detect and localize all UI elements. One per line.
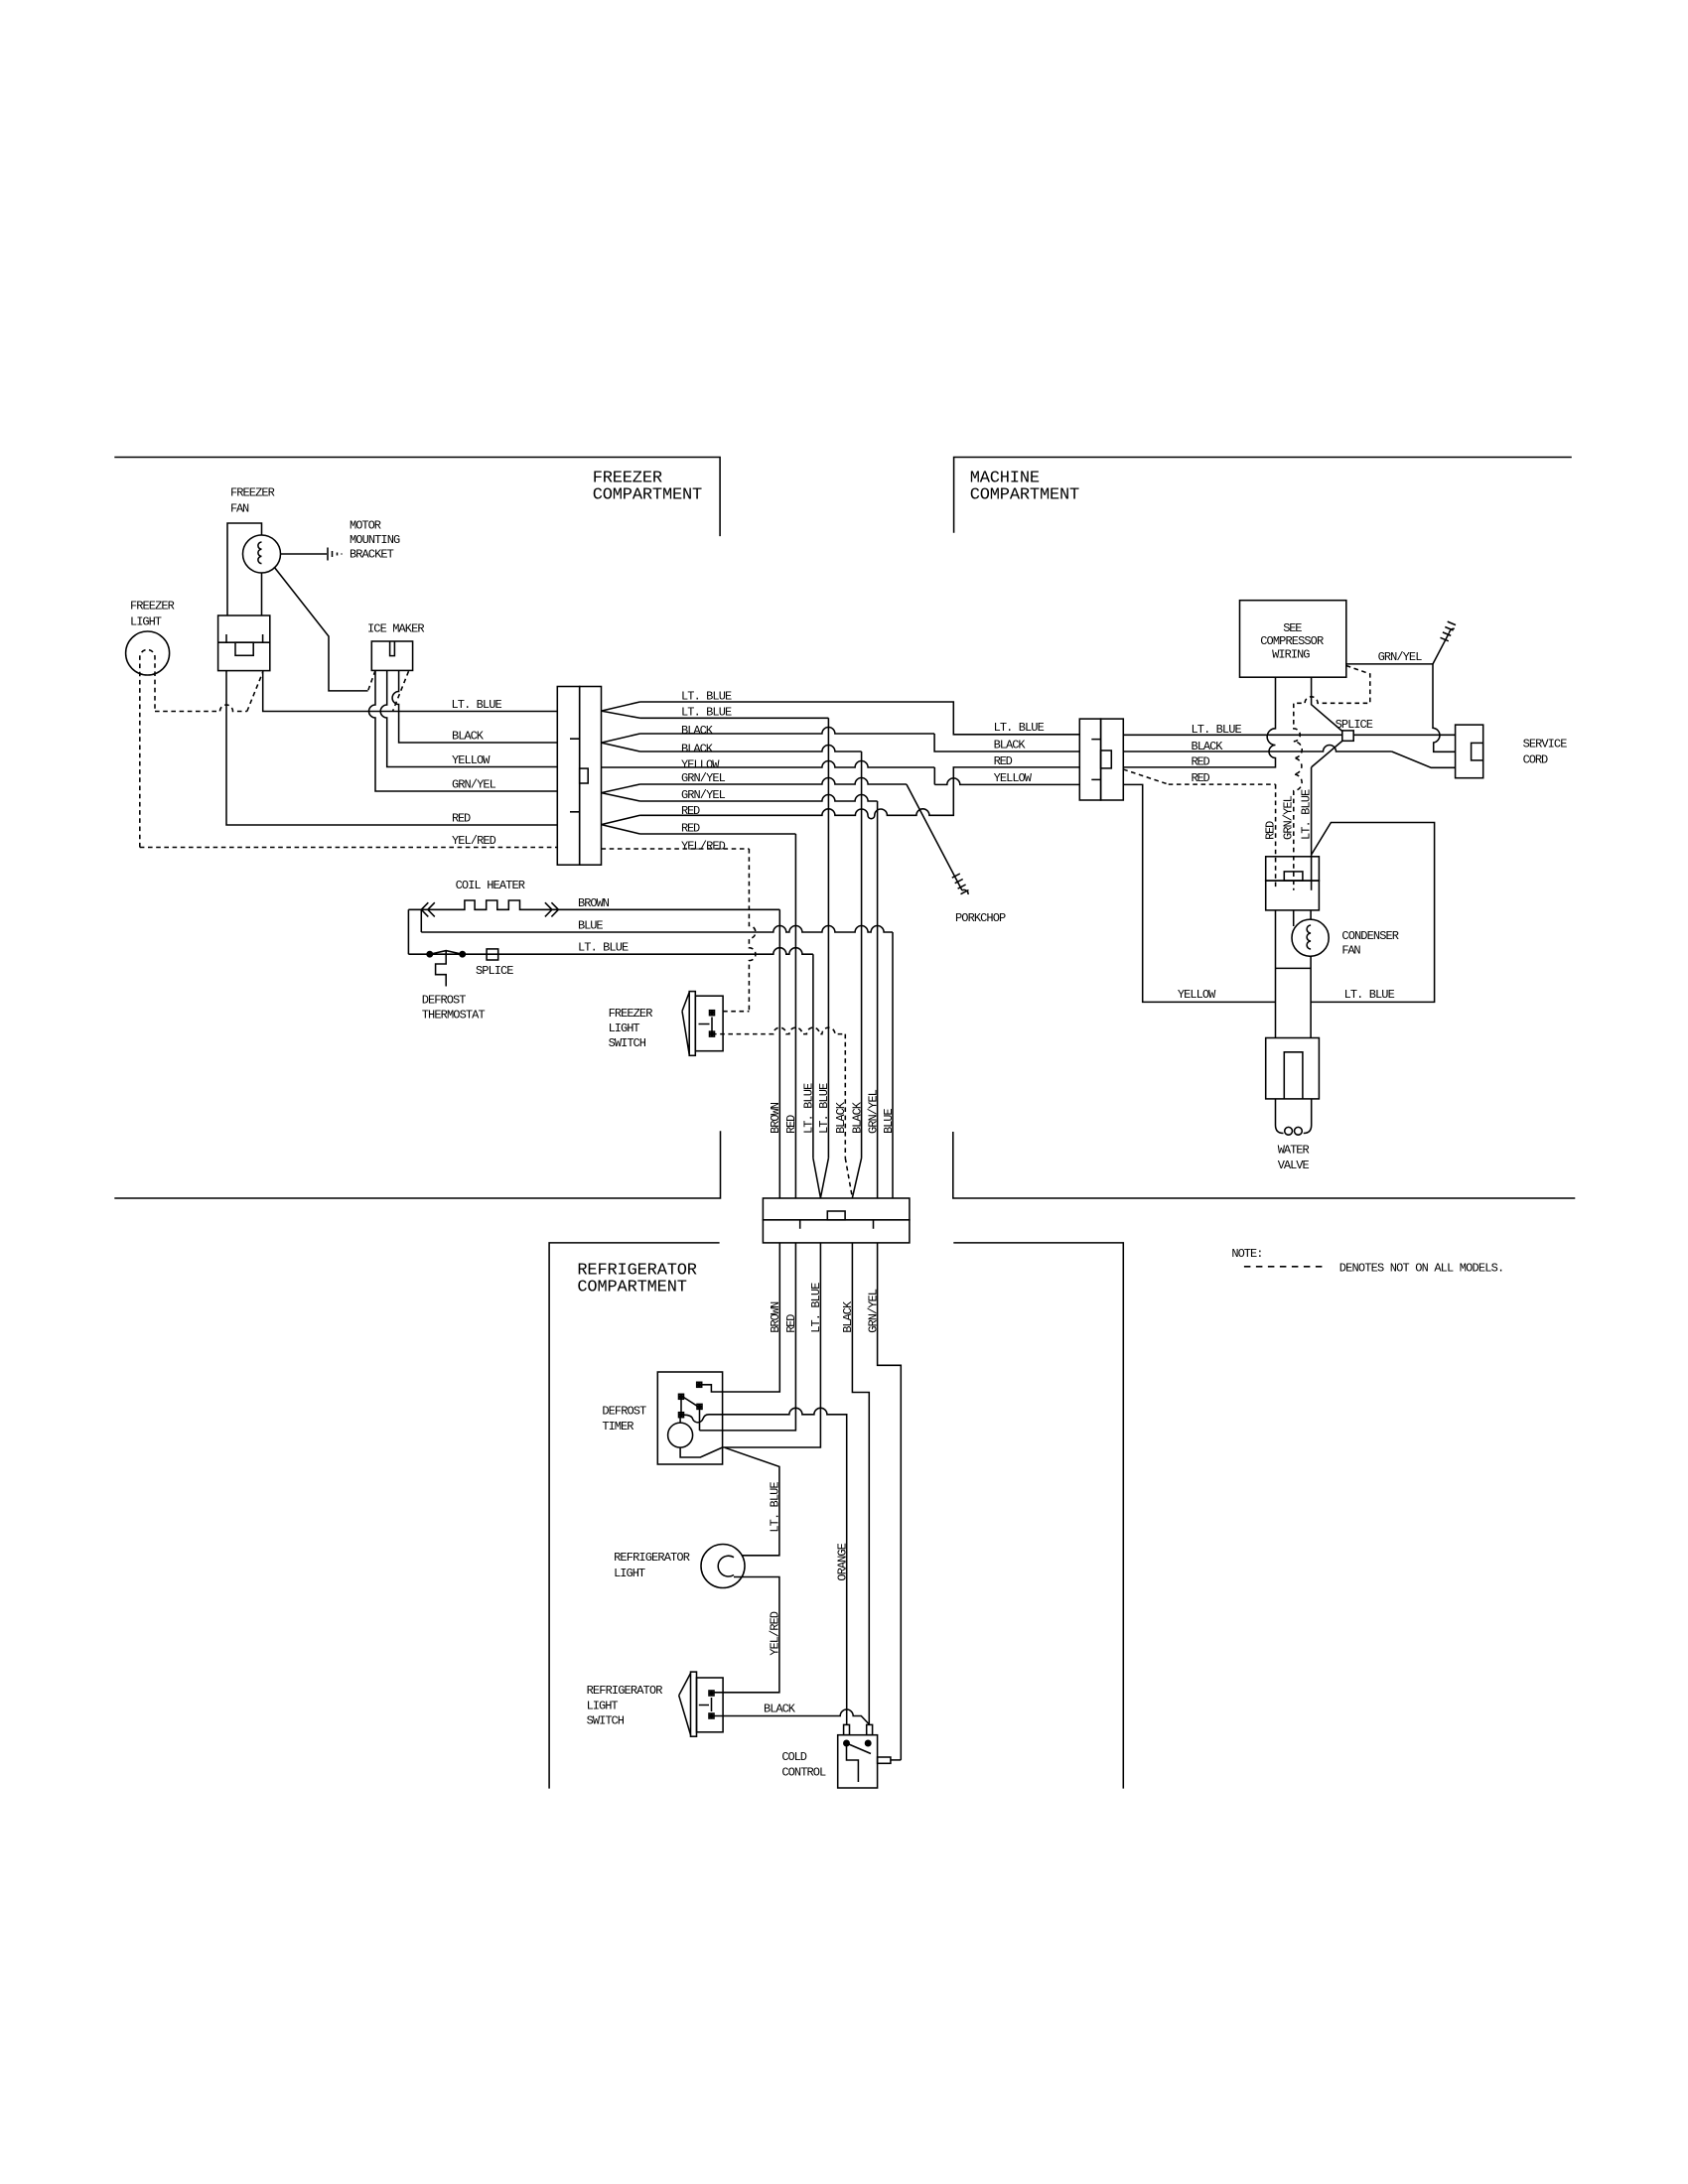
wire LT. BLUE upper <box>640 702 1080 735</box>
svg-text:GRN/YEL: GRN/YEL <box>681 788 726 802</box>
wire LT. BLUE timer to refrigerator light <box>725 1447 779 1556</box>
svg-text:BLACK: BLACK <box>764 1703 796 1716</box>
wire GRN/YEL down with jog <box>878 1243 902 1760</box>
ice maker pin 1 dashed <box>368 670 375 691</box>
wire dashed YEL/RED to connector <box>140 847 558 849</box>
defrost timer motor tail to LT. BLUE out <box>680 1447 723 1457</box>
freezer compartment connector block <box>557 687 579 866</box>
cold control contacts <box>844 1740 849 1745</box>
svg-text:SWITCH: SWITCH <box>609 1036 646 1050</box>
svg-text:YELLOW: YELLOW <box>681 757 720 771</box>
svg-text:YEL/RED: YEL/RED <box>452 834 496 848</box>
svg-text:PORKCHOP: PORKCHOP <box>955 911 1006 925</box>
svg-text:FAN: FAN <box>230 501 249 515</box>
ice maker pin 3 wire to BLACK <box>392 670 557 743</box>
wire BLACK lower drop <box>640 746 862 751</box>
wire YEL/RED light to switch <box>715 1577 779 1693</box>
svg-text:SPLICE: SPLICE <box>476 964 513 978</box>
crimp RED pair <box>602 815 640 834</box>
refrigerator light bulb <box>701 1545 745 1588</box>
svg-text:LT. BLUE: LT. BLUE <box>802 1083 816 1134</box>
svg-text:LIGHT: LIGHT <box>614 1567 645 1580</box>
wire RED vertical drop <box>794 834 796 1198</box>
svg-text:BROWN: BROWN <box>578 896 610 910</box>
wire RED into defrost timer <box>700 1243 796 1431</box>
svg-text:LT. BLUE: LT. BLUE <box>681 706 732 720</box>
ice maker pin 4 dashed <box>393 671 409 711</box>
svg-text:SEE: SEE <box>1283 621 1302 635</box>
svg-text:FREEZER: FREEZER <box>593 469 662 487</box>
wire BLACK run to service cord <box>1123 746 1391 752</box>
wire dashed BLACK from switch <box>712 1027 845 1034</box>
wire BLACK switch to cold control <box>714 1709 870 1724</box>
svg-text:LT. BLUE: LT. BLUE <box>1299 789 1313 840</box>
cold control box <box>838 1735 878 1788</box>
wire LT. BLUE (defrost circuit) <box>408 948 813 954</box>
svg-text:RED: RED <box>681 804 700 818</box>
defrost thermostat <box>427 952 432 957</box>
refrigerator light switch body <box>691 1672 697 1736</box>
wire GRN/YEL stub to condenser fan frame <box>1293 910 1295 926</box>
wire RED lower drop <box>640 833 796 835</box>
wire GRN/YEL upper (to porkchop) <box>640 778 907 784</box>
svg-text:RED: RED <box>452 812 471 826</box>
wire YELLOW run down <box>1123 784 1275 1002</box>
svg-text:MOTOR: MOTOR <box>350 518 381 532</box>
svg-text:LIGHT: LIGHT <box>130 614 162 628</box>
wire GRN/YEL dashed from compressor box <box>1294 666 1370 890</box>
svg-text:ICE MAKER: ICE MAKER <box>367 621 425 635</box>
machine compartment border bottom <box>953 1132 1576 1198</box>
svg-text:DEFROST: DEFROST <box>602 1404 646 1418</box>
water valve connector <box>1266 1038 1320 1099</box>
svg-text:REFRIGERATOR: REFRIGERATOR <box>614 1551 690 1565</box>
svg-text:DENOTES NOT ON ALL MODELS.: DENOTES NOT ON ALL MODELS. <box>1339 1261 1504 1275</box>
compressor mount block <box>1266 857 1320 881</box>
svg-text:COMPARTMENT: COMPARTMENT <box>577 1278 687 1297</box>
condenser fan circle <box>1292 919 1329 956</box>
svg-text:BLACK: BLACK <box>681 742 714 755</box>
freezer compartment border top <box>114 458 720 537</box>
wire BLACK vertical drop <box>861 751 863 1159</box>
svg-text:SERVICE: SERVICE <box>1523 737 1568 751</box>
crimp BLACK V <box>845 1159 852 1198</box>
ice maker connector block <box>371 641 412 670</box>
water valve solenoid loops <box>1285 1127 1293 1135</box>
svg-text:BLACK: BLACK <box>681 724 714 738</box>
svg-text:LIGHT: LIGHT <box>609 1022 640 1035</box>
svg-text:LT. BLUE: LT. BLUE <box>681 689 732 703</box>
coil heater chevron left <box>421 902 435 916</box>
wire YEL/RED dashed drop <box>602 848 750 850</box>
cold control capillary <box>847 1743 859 1782</box>
defrost timer T2 lead <box>699 1409 701 1431</box>
wire ORANGE from timer <box>684 1408 847 1724</box>
svg-text:CONTROL: CONTROL <box>781 1765 826 1779</box>
defrost timer terminal T1 <box>697 1382 702 1387</box>
wire BLUE <box>420 909 422 932</box>
svg-text:SPLICE: SPLICE <box>1336 718 1373 732</box>
svg-text:YELLOW: YELLOW <box>452 753 491 767</box>
condenser fan coil <box>1307 925 1311 949</box>
svg-text:RED: RED <box>681 821 700 835</box>
wire GRN/YEL lower drop <box>640 795 878 801</box>
svg-text:RED: RED <box>994 754 1013 768</box>
splice square (machine) <box>1342 731 1353 741</box>
svg-text:BLACK: BLACK <box>452 730 485 744</box>
svg-text:COMPRESSOR: COMPRESSOR <box>1260 634 1324 648</box>
svg-text:GRN/YEL: GRN/YEL <box>1282 795 1296 840</box>
wire LT. BLUE main run to splice <box>1123 734 1455 736</box>
ice maker pin 1 wire to GRN/YEL <box>369 670 558 791</box>
svg-text:RED: RED <box>1264 821 1278 840</box>
wire fan connector to RED <box>226 671 557 825</box>
defrost timer terminal T4 <box>679 1394 684 1399</box>
freezer light switch terminals <box>710 1011 715 1016</box>
svg-text:BLUE: BLUE <box>882 1108 896 1134</box>
wire fan to ice maker area diagonal <box>274 567 368 691</box>
machine compartment border top <box>954 458 1572 533</box>
wire LT. BLUE splice tap down <box>1312 741 1342 767</box>
svg-text:CORD: CORD <box>1523 752 1549 766</box>
service cord connector <box>1456 725 1483 778</box>
defrost timer terminal T3 <box>679 1413 684 1418</box>
refrigerator compartment border right <box>953 1243 1123 1789</box>
wire YELLOW <box>602 761 935 768</box>
ground hatch symbol <box>1441 621 1457 641</box>
svg-text:MOUNTING: MOUNTING <box>350 533 400 547</box>
defrost timer box <box>657 1372 722 1464</box>
wire LT. BLUE into defrost timer <box>723 1243 821 1447</box>
wires mount block to water valve <box>1275 910 1277 1037</box>
svg-text:BRACKET: BRACKET <box>350 547 394 561</box>
svg-text:FAN: FAN <box>1341 943 1360 957</box>
water valve coil leads <box>1276 1099 1284 1134</box>
svg-text:VALVE: VALVE <box>1278 1159 1310 1172</box>
svg-text:CONDENSER: CONDENSER <box>1341 929 1399 943</box>
wire BLACK down with jog <box>852 1243 869 1725</box>
svg-text:COMPARTMENT: COMPARTMENT <box>970 486 1080 505</box>
wire dashed BLACK drop <box>844 1034 846 1159</box>
svg-text:ORANGE: ORANGE <box>836 1543 850 1580</box>
svg-text:LT. BLUE: LT. BLUE <box>994 721 1045 735</box>
wire BROWN into defrost timer <box>702 1243 780 1392</box>
svg-text:YELLOW: YELLOW <box>1178 988 1216 1002</box>
svg-text:LT. BLUE: LT. BLUE <box>578 941 629 955</box>
svg-text:BLACK: BLACK <box>994 739 1027 752</box>
defrost timer terminal T2 <box>697 1404 702 1409</box>
cold control side terminal <box>878 1757 891 1763</box>
wire GRN/YEL to service cord <box>1346 664 1456 751</box>
svg-text:BLACK: BLACK <box>850 1101 864 1134</box>
freezer compartment border bottom <box>114 1131 720 1198</box>
compartment pass-through connector block <box>763 1198 910 1220</box>
GRN/YEL ground diagonal <box>1433 632 1450 664</box>
wire YEL/RED dashed vertical to freezer light switch <box>749 849 756 1012</box>
refrigerator compartment border left <box>549 1243 720 1789</box>
svg-text:SWITCH: SWITCH <box>587 1714 625 1728</box>
wire LT. BLUE to water valve loop <box>1311 823 1435 1003</box>
wire BLACK upper <box>640 728 935 734</box>
svg-text:GRN/YEL: GRN/YEL <box>452 778 496 792</box>
svg-text:BLACK: BLACK <box>834 1101 848 1134</box>
svg-text:WIRING: WIRING <box>1272 647 1310 661</box>
splice square (freezer) <box>487 949 498 960</box>
defrost timer motor <box>668 1423 693 1447</box>
svg-text:YEL/RED: YEL/RED <box>769 1611 782 1656</box>
middle connector block <box>1079 719 1100 800</box>
compressor box LT. BLUE lead to splice <box>1312 677 1342 731</box>
svg-text:TIMER: TIMER <box>602 1420 633 1433</box>
wire LT. BLUE lower drop <box>640 717 829 719</box>
wire LT. BLUE through mount <box>1311 855 1313 890</box>
wire fan lower lead <box>261 573 263 615</box>
freezer fan motor coil <box>258 542 262 564</box>
svg-text:FREEZER: FREEZER <box>230 485 275 499</box>
refrigerator light switch terminals <box>709 1691 714 1696</box>
svg-text:COLD: COLD <box>781 1750 807 1764</box>
freezer fan motor circle <box>243 535 281 573</box>
wire RED run and riser to compressor <box>1123 677 1275 767</box>
svg-text:FREEZER: FREEZER <box>130 599 175 613</box>
motor mounting bracket symbol <box>328 548 342 561</box>
crimp LT. BLUE pair <box>602 702 640 718</box>
crimp BLACK pair <box>602 734 640 751</box>
svg-text:GRN/YEL: GRN/YEL <box>866 1089 880 1134</box>
svg-text:DEFROST: DEFROST <box>422 993 467 1007</box>
freezer fan connector block <box>218 615 270 671</box>
svg-text:BROWN: BROWN <box>769 1102 782 1134</box>
wire GRN/YEL vertical drop <box>877 801 879 1198</box>
freezer light bulb circle <box>126 631 170 675</box>
porkchop pointer line <box>907 784 962 890</box>
wire dashed light to fan connector <box>155 705 247 712</box>
svg-text:LT. BLUE: LT. BLUE <box>769 1481 782 1532</box>
svg-text:NOTE:: NOTE: <box>1231 1247 1263 1261</box>
freezer light dashed leads YEL/RED <box>140 649 155 847</box>
crimp LT. BLUE V <box>813 1159 821 1198</box>
svg-text:THERMOSTAT: THERMOSTAT <box>422 1008 486 1022</box>
svg-text:BLUE: BLUE <box>578 918 604 932</box>
svg-text:RED: RED <box>1192 771 1210 785</box>
wire BROWN drop <box>778 909 780 1198</box>
svg-text:LIGHT: LIGHT <box>587 1699 619 1712</box>
svg-text:FREEZER: FREEZER <box>609 1007 653 1021</box>
wire LT. BLUE vertical drop <box>827 718 829 1158</box>
svg-text:RED: RED <box>784 1115 798 1134</box>
svg-text:YEL/RED: YEL/RED <box>681 839 726 853</box>
wire RED upper <box>640 767 1080 819</box>
wire BROWN left vertical <box>408 909 421 954</box>
defrost timer switch blade <box>684 1398 698 1407</box>
svg-text:REFRIGERATOR: REFRIGERATOR <box>587 1684 663 1698</box>
freezer light switch body <box>689 992 695 1056</box>
wire BLUE drop <box>892 932 894 1198</box>
svg-text:GRN/YEL: GRN/YEL <box>1378 650 1423 664</box>
wire fan connector to LT. BLUE <box>263 671 558 712</box>
svg-text:YELLOW: YELLOW <box>994 771 1033 785</box>
svg-text:LT. BLUE: LT. BLUE <box>1344 988 1395 1002</box>
crimp GRN/YEL pair <box>602 784 640 801</box>
porkchop symbol <box>952 874 969 894</box>
wire freezer fan loop <box>227 523 262 615</box>
svg-text:LT. BLUE: LT. BLUE <box>452 698 502 712</box>
wire LT. BLUE defrost drop <box>812 954 814 1158</box>
svg-text:GRN/YEL: GRN/YEL <box>681 771 726 785</box>
compressor wiring box <box>1240 601 1346 678</box>
svg-text:COIL HEATER: COIL HEATER <box>456 879 525 892</box>
svg-text:LT. BLUE: LT. BLUE <box>817 1083 831 1134</box>
ice maker pin 2 wire to YELLOW <box>380 670 557 766</box>
coil heater chevron right <box>545 902 559 916</box>
coil heater element BROWN <box>421 900 779 909</box>
svg-text:COMPARTMENT: COMPARTMENT <box>593 486 703 505</box>
svg-text:WATER: WATER <box>1278 1144 1310 1158</box>
motor mounting bracket lead <box>281 553 328 555</box>
wire RED dashed to compressor mount <box>1123 769 1168 784</box>
